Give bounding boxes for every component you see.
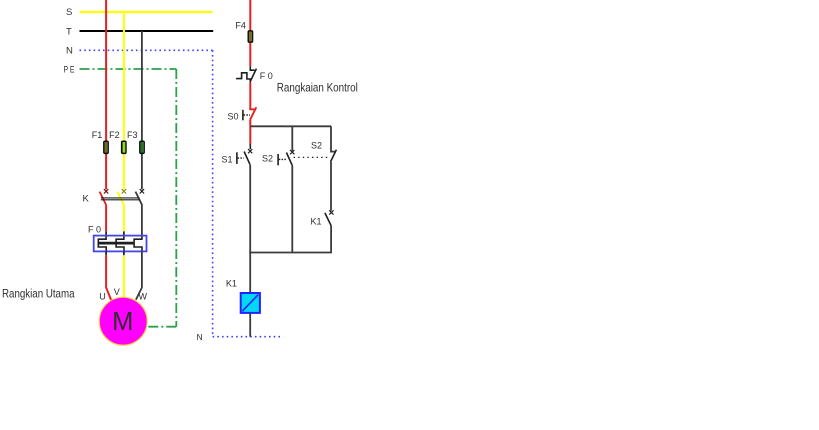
svg-text:K: K [83, 194, 90, 205]
wire phase R overload to motor [106, 251, 111, 300]
overload F0 heater element 3 [134, 236, 142, 251]
wire N vertical drop [212, 50, 214, 336]
bus N (blue dotted neutral) [80, 49, 213, 51]
svg-text:P E: P E [64, 65, 75, 76]
contactor K pole 2 blade (yellow) [117, 192, 124, 206]
bus label N [66, 46, 73, 57]
svg-text:K1: K1 [226, 278, 237, 288]
wire S1 to bottom rail [249, 165, 251, 293]
fuse F1 [103, 141, 109, 155]
wire PE to motor [148, 326, 176, 328]
wire phase S (yellow) drop to contactor [123, 12, 125, 189]
fuse F2 label [109, 130, 120, 140]
wire right branch drop [331, 126, 335, 151]
bus S (yellow phase busbar) [80, 11, 213, 13]
coil K1 [241, 293, 260, 313]
contact K1 label [311, 217, 322, 227]
overload F0 linkage bar [98, 242, 134, 245]
wire S0 to S1 (red) [249, 119, 251, 149]
motor terminal label W [139, 292, 148, 302]
pushbutton S2 label (middle) [262, 154, 273, 164]
svg-text:U: U [99, 292, 106, 302]
wire phase T overload to motor [136, 251, 142, 300]
wire middle branch to bottom rail [291, 166, 293, 253]
svg-text:S: S [66, 7, 72, 18]
svg-text:W: W [139, 292, 148, 302]
contactor K pole 1 fixed contact mark [104, 189, 108, 193]
wire phase R (red) top to contactor [105, 0, 107, 189]
contact F0 NC (thermal trip) [236, 66, 256, 82]
svg-text:Rangkian Utama: Rangkian Utama [2, 286, 75, 300]
svg-text:F1: F1 [92, 130, 103, 140]
caption Rangkian Utama [2, 286, 75, 300]
bottom rail of control branches [249, 251, 332, 253]
fuse F2 [121, 141, 127, 155]
wire N bottom rail [213, 336, 284, 338]
svg-text:F3: F3 [127, 130, 138, 140]
fuse F3 label [127, 130, 138, 140]
bus label S [66, 7, 72, 18]
svg-text:F2: F2 [109, 130, 120, 140]
caption Rangkaian Kontrol [277, 81, 358, 95]
svg-text:T: T [66, 26, 72, 37]
contact S2 NC blade (right branch) [331, 150, 337, 162]
contactor K pole 3 blade (dark) [136, 192, 143, 206]
contactor K pole 1 blade (red) [100, 192, 107, 206]
pushbutton S0 label [228, 111, 239, 121]
contact S2 NC label (right branch) [311, 140, 322, 150]
node label N (bottom) [197, 332, 203, 342]
pushbutton S0 NC (stop) [243, 107, 256, 120]
contactor K pole 2 fixed contact mark [122, 189, 126, 193]
wire middle branch drop [291, 126, 293, 151]
bus label PE [64, 65, 75, 76]
svg-text:F4: F4 [235, 21, 246, 31]
bus label T [66, 26, 72, 37]
bus T (black phase busbar) [80, 30, 214, 32]
wire S2 NC to K1 contact [330, 162, 332, 211]
contactor K label [83, 194, 90, 205]
svg-text:V: V [114, 287, 120, 297]
top rail of control branches [250, 125, 331, 127]
wire K1 contact to bottom rail [330, 226, 332, 253]
svg-text:N: N [197, 332, 203, 342]
contact K1 NO (holding) [325, 210, 334, 225]
svg-text:F 0: F 0 [88, 225, 101, 235]
wire phase T (dark) drop to contactor [141, 31, 143, 189]
coil K1 label [226, 278, 237, 288]
fuse F4 [248, 30, 254, 43]
contactor K mechanical linkage [101, 198, 140, 200]
svg-text:F 0: F 0 [260, 71, 273, 81]
wire F0 to S0 (red) [249, 83, 251, 110]
overload F0 heater element 2 [116, 236, 124, 251]
overload F0 enclosure [94, 236, 147, 252]
bus PE (green dash-dot protective earth) [80, 68, 177, 70]
fuse F1 label [92, 130, 103, 140]
svg-text:M: M [112, 308, 133, 336]
pushbutton S1 NO (start) [237, 149, 252, 165]
wire phase S overload to motor [123, 251, 125, 298]
svg-text:N: N [66, 46, 73, 57]
motor terminal label U [99, 292, 106, 302]
overload F0 heater element 1 [98, 236, 106, 251]
contactor K pole 3 fixed contact mark [140, 189, 144, 193]
wire control phase (red) from top [249, 0, 251, 66]
wire phase S contactor to overload [123, 205, 125, 236]
svg-text:S2: S2 [311, 140, 322, 150]
fuse F4 label [235, 21, 246, 31]
mechanical link S2 dotted [294, 156, 328, 158]
motor M1 [99, 297, 147, 345]
svg-text:S0: S0 [228, 111, 239, 121]
contact F0 label [260, 71, 273, 81]
overload F0 label [88, 225, 101, 235]
motor terminal label V [114, 287, 120, 297]
pushbutton S2 NO (middle branch) [278, 150, 294, 166]
wire phase R contactor to overload [105, 205, 107, 236]
svg-text:S2: S2 [262, 154, 273, 164]
wire coil K1 to N [249, 313, 251, 337]
wire phase T contactor to overload [141, 205, 143, 236]
pushbutton S1 label [222, 154, 233, 164]
fuse F3 [139, 141, 145, 155]
wire PE vertical drop [175, 69, 177, 327]
svg-text:K1: K1 [311, 217, 322, 227]
svg-text:S1: S1 [222, 154, 233, 164]
svg-text:Rangkaian Kontrol: Rangkaian Kontrol [277, 81, 358, 95]
